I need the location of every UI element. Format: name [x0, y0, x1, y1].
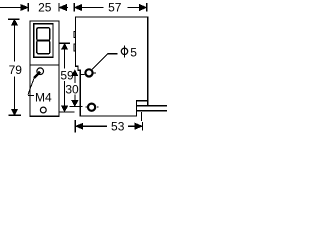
- svg-text:30: 30: [65, 82, 79, 96]
- svg-text:79: 79: [9, 63, 23, 77]
- svg-text:25: 25: [38, 0, 52, 14]
- svg-text:5: 5: [130, 46, 137, 60]
- svg-text:53: 53: [111, 119, 125, 133]
- svg-text:57: 57: [108, 0, 122, 14]
- svg-text:M4: M4: [35, 90, 52, 104]
